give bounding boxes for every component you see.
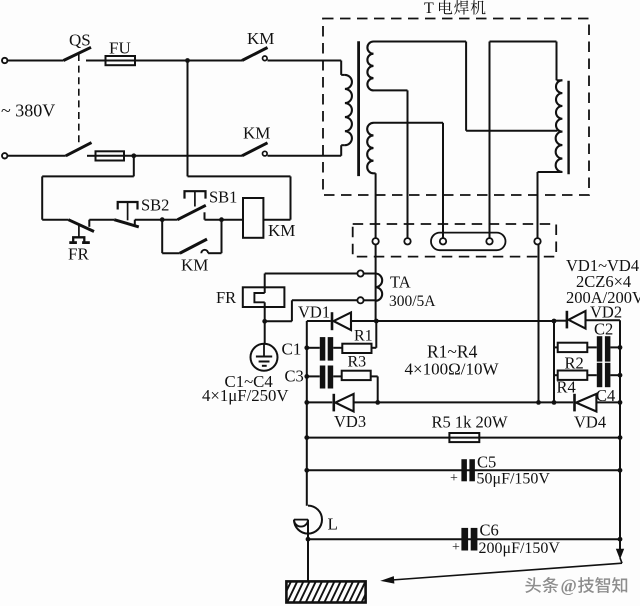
wire phase B drop to control rail [133,156,135,177]
svg-text:+: + [452,540,460,555]
capacitor C2 [597,336,603,361]
transformer T enclosure (dashed) [323,19,589,196]
resistor R2 [554,346,558,348]
pushbutton SB2 (NC stop) [118,202,138,210]
wire secondary 2 bottom to terminal 1 [374,172,376,174]
wire KM1 to transformer primary [268,60,342,62]
svg-text:QS: QS [69,31,91,50]
reactor core [567,81,569,175]
wire R3 to bottom rail [371,375,378,377]
svg-text:VD4: VD4 [574,413,606,432]
node L1 supply terminal [2,58,7,63]
wire control rail right segment [188,175,291,177]
wire reactor bottom to terminal 5 [537,172,539,238]
wire terminal 4 riser [489,42,491,239]
wire TA top terminal to FR heater [265,273,358,275]
node A [160,217,165,222]
svg-text:FR: FR [68,244,89,263]
node phase B junction [131,153,136,158]
wire TA bottom terminal return [292,299,358,301]
svg-text:R3: R3 [348,354,367,371]
svg-text:L: L [328,515,338,534]
wire C3 to R3 [333,375,342,377]
wire right bridge vertical [553,321,555,402]
wire TA terminals to main wire [364,273,376,275]
node ground junction [262,319,267,324]
resistor R1 [342,344,371,353]
wire FR to SB2 [89,219,114,221]
terminal strip (dashed) [353,224,557,257]
current transformer TA winding [376,274,383,301]
node R3 tap [375,400,380,405]
inductor L [294,506,322,534]
wire VD1 to node D1 and top rail [351,320,554,322]
contactor coil KM [243,198,263,238]
svg-text:T: T [424,0,434,17]
diode VD4 [573,394,576,412]
svg-text:KM: KM [181,256,208,275]
wire KM coil to control rail right [263,219,290,221]
wire phase A drop to control rail [187,61,189,177]
thermal relay contact FR (NC) [68,220,94,232]
diode VD2 [554,320,567,322]
svg-text:C3: C3 [285,367,304,386]
switch QS pole 2 [66,143,92,156]
thermal relay heater FR [264,274,266,294]
capacitor C4 [597,363,603,387]
contactor contact KM pole 1 [242,48,268,61]
wire C6 rail [308,538,620,540]
node bottom-right junction [552,400,557,405]
QS mechanical link (dashed) [78,54,80,145]
svg-text:KM: KM [247,29,274,48]
svg-text:VD1: VD1 [298,303,330,322]
svg-text:R4: R4 [557,378,576,397]
terminal 1 [372,238,378,244]
diode VD1 [331,312,334,330]
TA secondary terminal (bottom) [357,297,363,303]
wire to FR contact [42,219,68,221]
node D1 (TA feed) [374,319,379,324]
node phase A junction [185,58,190,63]
workpiece (hatched) [280,579,379,604]
transformer secondary winding 2 [367,123,373,174]
node top-right rail junction [552,319,557,324]
svg-text:C6: C6 [480,521,499,540]
svg-text:SB2: SB2 [141,196,169,215]
svg-text:200μF/150V: 200μF/150V [479,540,561,557]
terminal 5 [534,238,540,244]
wire L1 to QS [7,60,63,62]
wire L to C6 rail and electrode [307,520,309,582]
capacitor C3 [304,374,309,379]
svg-text:C1: C1 [282,340,302,359]
welding electrode arrow [617,549,624,558]
wire secondary 2 to terminal 3 [442,123,444,238]
pushbutton SB1 (NO start) [185,191,206,198]
terminal 3 [440,238,446,244]
wire bottom rail [354,401,574,403]
svg-text:4×100Ω/10W: 4×100Ω/10W [405,360,500,379]
capacitor C5 (electrolytic) [461,459,467,481]
switch QS pole 1 [64,47,92,60]
wire to reactor winding top [556,42,558,81]
wire FU2 to KM contact 2 [124,155,242,157]
terminal 2 [404,238,410,244]
wire secondary 1 top to reactor tap [465,42,467,131]
svg-text:R1: R1 [354,328,373,345]
contactor contact KM pole 2 [242,143,268,156]
svg-text:KM: KM [243,124,270,143]
wire QS to FU [86,60,106,62]
svg-text:FR: FR [216,288,236,307]
TA secondary terminal (top) [357,270,363,276]
svg-text:300/5A: 300/5A [389,293,436,310]
wire top rail left [307,320,331,322]
svg-text:KM: KM [268,221,295,240]
wire FU to KM contact 1 [135,60,242,62]
node terminal-5 feed [536,400,541,405]
wire secondary 1 to terminal 2 [407,90,409,238]
wire VD4 to right rail [596,401,620,403]
resistor R5 [449,433,479,442]
ground (earth in circle) [251,344,278,371]
wire VD2 to right rail [586,319,621,321]
wire SB2 to node A [135,219,162,221]
auxiliary contact KM (self-hold) [161,220,163,254]
wire QS to FU pole 2 [87,155,96,157]
wire C2 to right rail [610,346,620,348]
node L2 supply terminal [2,153,7,158]
svg-text:~ 380V: ~ 380V [1,101,55,121]
svg-text:C5: C5 [477,453,496,472]
svg-text:VD3: VD3 [334,412,366,431]
wire node A to SB1 [162,219,177,221]
wire C1 to R1 [333,347,342,349]
resistor R4 [554,374,558,376]
fuse FU pole 2 [96,155,125,157]
svg-text:@: @ [561,576,577,596]
node B [219,217,224,222]
svg-text:R5 1k 20W: R5 1k 20W [432,413,509,432]
wire left control branch down [41,176,43,219]
transformer primary winding [340,61,342,75]
node VD3 corner [304,400,309,405]
fuse FU pole 1 [106,60,136,62]
transformer secondary winding 1 [367,42,373,91]
svg-text:FU: FU [109,39,131,58]
wire R1 to node D1 [372,347,377,349]
transformer core [357,41,360,176]
watermark 头条@技智知 [525,577,541,593]
wire bottom rail left [307,401,333,403]
FR trip mechanism [78,226,80,238]
wire SB1 to node B [205,219,222,221]
reactor winding (tapped) [557,79,563,81]
wire left rail [306,321,308,506]
wire terminal 1 down through TA [375,245,377,322]
svg-text:+: + [450,471,458,486]
svg-text:50μF/150V: 50μF/150V [477,471,551,488]
svg-text:C2: C2 [594,320,613,339]
svg-text:SB1: SB1 [209,188,237,207]
wire R4 to C4 [587,374,597,376]
wire terminal 5 down to bottom rail [538,244,540,402]
wire KM2 to transformer primary [268,155,342,157]
wire C4 to right rail [610,374,620,376]
svg-text:R1~R4: R1~R4 [427,342,478,362]
capacitor C1 [304,345,309,350]
resistor R3 [342,371,371,380]
capacitor C6 (electrolytic) [461,528,468,551]
wire L2 to QS [7,155,65,157]
wire control rail left segment [42,175,134,177]
wire node B to KM coil [222,219,244,221]
node L output [306,537,311,542]
wire C5 rail [307,469,620,471]
wire right rail [619,320,621,556]
svg-text:TA: TA [390,273,411,292]
wire R5 rail [307,437,620,439]
wire to ground [264,321,266,344]
wire R2 to C2 [587,346,597,348]
diode VD3 [332,394,335,412]
terminal link 3-4 [431,233,506,251]
terminal 4 [486,238,492,244]
svg-text:4×1μF/250V: 4×1μF/250V [202,386,289,405]
